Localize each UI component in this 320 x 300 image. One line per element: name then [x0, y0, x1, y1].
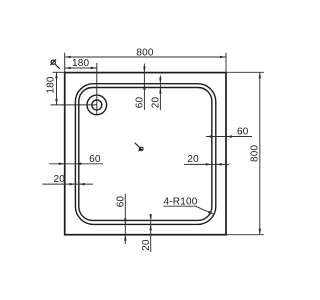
dimension 20 (bottom rim width) [141, 214, 152, 252]
drain horizontal centerline [51, 104, 97, 106]
svg-text:180: 180 [45, 76, 56, 94]
dimension 60 (left rim offset) [49, 154, 103, 165]
tray rim outer line (rounded rect R100) [75, 84, 215, 225]
dimension 180 (left, drain offset y) [45, 72, 64, 105]
drain vertical centerline [96, 63, 98, 115]
label 4-R100 (corner radius leader) [163, 196, 214, 214]
dimension 60 (right rim offset) [206, 127, 252, 138]
svg-text:800: 800 [250, 144, 261, 162]
drain inner circle [92, 100, 102, 110]
shower tray outer edge (800x800 square) [65, 73, 226, 235]
svg-text:60: 60 [237, 127, 249, 138]
svg-text:20: 20 [151, 97, 162, 109]
dimension 20 (right rim width) [184, 154, 229, 166]
svg-text:20: 20 [141, 239, 152, 251]
dimension 800 (top width) [65, 47, 226, 72]
dimension 180 (top, drain offset x) [65, 58, 97, 69]
dimension 20 (top rim width) [151, 76, 162, 111]
drain outer circle [87, 95, 107, 115]
svg-text:4-R100: 4-R100 [164, 196, 198, 207]
svg-text:60: 60 [115, 196, 126, 208]
svg-text:800: 800 [136, 47, 154, 58]
tray rim inner line [79, 88, 212, 221]
center slope mark [135, 143, 143, 152]
dimension 60 (bottom rim offset) [115, 194, 126, 245]
svg-text:60: 60 [135, 97, 146, 109]
svg-text:20: 20 [187, 154, 199, 165]
dimension 20 (left rim width) [42, 174, 93, 185]
svg-text:20: 20 [54, 174, 66, 185]
dimension 800 (right height) [226, 72, 264, 234]
surface finish symbol (top-left) [50, 59, 60, 69]
svg-text:60: 60 [89, 154, 101, 165]
dimension 60 (top rim offset) [135, 64, 146, 111]
svg-text:180: 180 [72, 58, 90, 69]
